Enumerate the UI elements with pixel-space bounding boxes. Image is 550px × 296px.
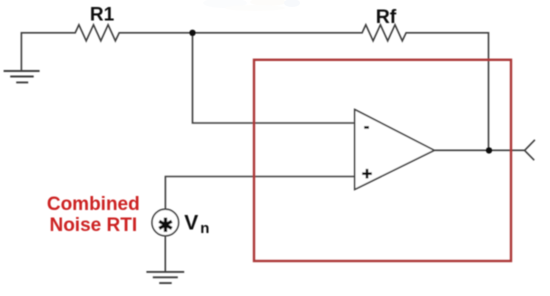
svg-text:n: n (200, 220, 209, 237)
svg-text:V: V (184, 212, 198, 235)
svg-text:R1: R1 (90, 5, 115, 26)
svg-text:Combined: Combined (47, 194, 140, 215)
svg-text:Rf: Rf (376, 6, 397, 28)
svg-text:Noise RTI: Noise RTI (49, 215, 137, 236)
